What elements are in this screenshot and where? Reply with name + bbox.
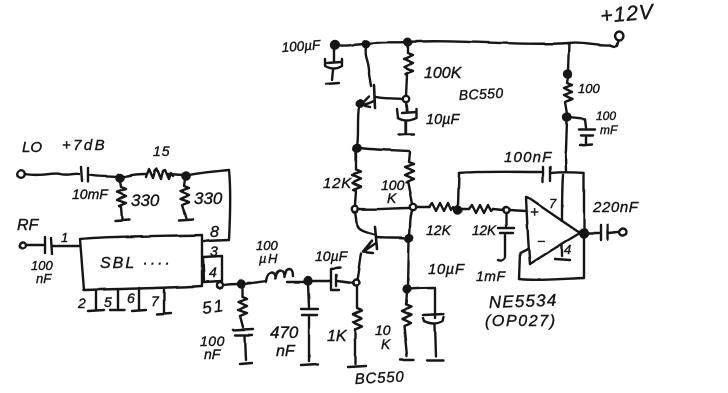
svg-text:1mF: 1mF [476,268,506,284]
svg-text:100µF: 100µF [281,37,321,55]
transistor Q2 collector [377,237,405,238]
svg-text:1: 1 [61,230,68,245]
capacitor 10uF (collector bypass) [410,288,434,289]
capacitor 100nF (IF) [233,329,253,330]
wire base-collector row [358,208,410,209]
svg-text:12K: 12K [323,175,352,192]
svg-text:2: 2 [77,295,86,311]
svg-text:6: 6 [127,290,135,306]
resistor 1K [353,286,362,364]
svg-text:100: 100 [578,81,600,96]
svg-text:LO: LO [22,139,42,156]
capacitor 100mF [570,117,585,119]
node rail-Q1 collector [363,41,369,47]
svg-text:K: K [387,190,397,206]
node Q2 emitter [353,280,359,286]
svg-text:51: 51 [201,296,226,318]
resistor 51 [238,287,247,327]
svg-text:10mF: 10mF [72,186,109,202]
node feedback tap [455,207,462,214]
node Q1 emitter rail [353,144,360,151]
svg-text:4: 4 [564,242,571,257]
capacitor 220nF [600,225,602,240]
resistor 330 (2) [180,179,189,218]
svg-text:mF: mF [600,123,618,137]
capacitor 10uF (coupling) [311,280,330,282]
resistor 12K (series 1) [429,203,455,211]
pin 4 stub / ground [561,244,563,256]
wire output [588,232,599,234]
svg-text:12K: 12K [426,222,452,238]
pin 6 [138,288,140,309]
inductor 100uH [244,281,266,284]
wire 100nF feedback left [458,173,459,206]
node 12K bottom [352,206,358,212]
svg-text:nF: nF [36,271,52,286]
capacitor 1mF [505,214,507,226]
pin 7 stub [562,175,563,221]
svg-text:100nF: 100nF [504,149,553,166]
transistor Q1 emitter [362,101,374,106]
svg-text:−: − [537,233,545,249]
node 100K bottom [410,204,416,210]
wire from pin4 [224,284,238,285]
wire collector column [409,210,413,235]
svg-text:15: 15 [153,143,171,159]
transistor Q2 BC550 base wire [355,212,375,235]
capacitor 100uF (rail decoupling) [333,48,335,61]
node 51 [238,281,245,288]
wire LO to pin8 [189,170,230,241]
pin 2 [95,290,97,309]
svg-text:nF: nF [276,343,296,360]
pin 5 [117,290,119,308]
transistor Q1 base lead [376,97,402,99]
svg-text:220nF: 220nF [592,199,639,216]
resistor 12K (bias) [352,151,361,205]
wire emitter rail [360,148,409,151]
node LO 2 [182,172,189,179]
resistor 12K (series 2) [461,205,493,213]
svg-text:1K: 1K [327,328,348,345]
node Q1 emitter [357,101,364,108]
wire to op-amp [509,210,526,211]
+12V terminal [615,32,624,41]
svg-text:330: 330 [131,191,160,210]
node 470nF [305,278,312,285]
svg-text:K: K [381,336,391,352]
svg-text:12K: 12K [472,223,497,238]
svg-text:+: + [530,204,539,221]
transistor Q2 emitter [363,243,376,252]
svg-text:nF: nF [204,346,222,362]
svg-text:RF: RF [17,217,40,234]
node rail-100K [405,39,412,46]
transistor Q2 base bar [375,227,377,249]
node Q1 base junction [403,96,409,102]
svg-text:100K: 100K [424,65,463,82]
svg-text:BC550: BC550 [354,368,405,388]
LO terminal [17,170,25,178]
capacitor 470nF [308,284,309,307]
svg-text:8: 8 [210,224,219,241]
wire LO [25,174,79,175]
svg-text:+7dB: +7dB [62,137,107,154]
resistor 100 (supply) [568,43,569,71]
svg-text:7: 7 [151,293,160,309]
svg-text:3: 3 [210,243,218,259]
output terminal [620,229,627,236]
pin 3-4 box [203,256,222,282]
svg-text:NE5534: NE5534 [488,291,557,312]
wire Q1 emitter down [357,107,359,146]
capacitor 10mF [81,167,82,181]
op-amp U1 NE5534 [526,197,530,264]
svg-text:470: 470 [270,323,299,342]
wire +12V rail [335,41,610,45]
resistor 330 (1) [117,181,126,219]
svg-text:10µF: 10µF [428,261,465,278]
node op-amp input [503,207,509,213]
svg-text:5: 5 [104,294,112,310]
resistor 100K (bootstrap) [405,152,414,204]
pin 7 [163,289,165,312]
capacitor 10uF (top) [406,102,407,112]
inductor 15 [146,169,173,179]
svg-text:+12V: +12V [599,0,655,28]
transistor Q1 base bar [374,85,375,108]
transistor Q1 BC550 collector wire [366,47,371,86]
svg-text:100: 100 [596,109,616,123]
resistor 10K [402,292,411,356]
svg-text:330: 330 [194,189,223,208]
svg-text:µH: µH [259,251,279,266]
wire supply down to op-amp [566,120,567,171]
wire feedback right [583,173,585,277]
svg-text:10µF: 10µF [426,112,460,128]
wire RF [26,244,43,246]
node rail-100uF [331,41,339,49]
svg-text:10µF: 10µF [315,248,349,264]
svg-text:BC550: BC550 [458,85,504,103]
RF terminal [20,242,26,248]
mixer SBL box [80,235,202,290]
wire feedback bottom [519,278,584,280]
svg-text:7: 7 [549,196,557,211]
capacitor 100nF (feedback) [542,167,544,182]
svg-text:(OP027): (OP027) [485,313,557,330]
node pin4 out [217,282,223,288]
svg-text:SBL ····: SBL ···· [100,255,172,272]
capacitor 100nF (RF) [44,237,46,253]
resistor 100K (top) [404,45,413,96]
node LO 1 [116,174,123,181]
node op-amp output [580,229,588,237]
svg-text:4: 4 [209,264,217,280]
